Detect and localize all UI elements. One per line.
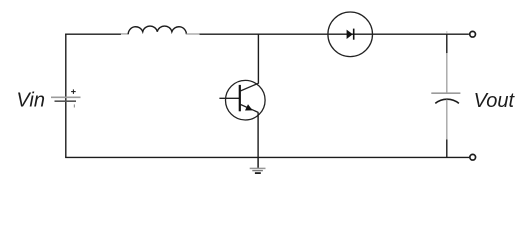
inductor left lead (gray): [121, 33, 129, 35]
wire: bottom rail: [65, 156, 469, 158]
inductor right lead (gray): [186, 33, 199, 35]
output terminal bottom (open circle): [470, 154, 476, 160]
ground bar 1 (widest): [250, 167, 266, 169]
svg-text:Vin: Vin: [16, 90, 45, 112]
wire: top rail right segment (through diode to output terminal): [200, 33, 469, 35]
transistor Q1 base lead: [219, 97, 239, 99]
battery source Vin: short negative plate: [55, 100, 77, 102]
diode D1 circle: [328, 12, 373, 57]
wire: emitter wire to bottom rail: [257, 112, 259, 157]
transistor Q1 base bar: [239, 85, 241, 111]
wire: capacitor branch overshoot tick: [446, 31, 448, 34]
wire: left vertical branch (Vin source branch): [65, 34, 67, 158]
transistor Q1 circle: [226, 80, 266, 120]
wire: ground stub: [257, 157, 259, 168]
battery source Vin: long positive plate: [51, 96, 81, 98]
wire: capacitor branch lower (black part): [446, 140, 448, 158]
transistor Q1 emitter diagonal: [241, 105, 259, 113]
wire: collector wire from top rail: [257, 34, 259, 84]
transistor Q1 collector diagonal: [241, 83, 259, 91]
ground bar 3 (shortest): [255, 172, 261, 174]
capacitor C1 bottom lead stub (gray): [446, 100, 448, 140]
output terminal top (open circle): [470, 31, 476, 37]
capacitor C1 top plate: [431, 92, 460, 94]
transistor Q1 emitter arrowhead: [245, 104, 253, 110]
diode D1 cathode bar: [353, 29, 355, 40]
wire: capacitor branch upper (black part): [446, 34, 448, 54]
capacitor C1 curved plate: [435, 99, 459, 103]
inductor L (4 humps): [128, 26, 186, 34]
ground bar 2: [252, 170, 263, 172]
battery plus sign: [71, 89, 76, 94]
svg-text:Vout: Vout: [474, 90, 516, 112]
diode D1 triangle (anode): [347, 30, 353, 39]
capacitor C1 top lead stub (gray): [446, 53, 448, 93]
battery minus tick: [73, 104, 75, 107]
wire: top rail left segment: [65, 33, 121, 35]
